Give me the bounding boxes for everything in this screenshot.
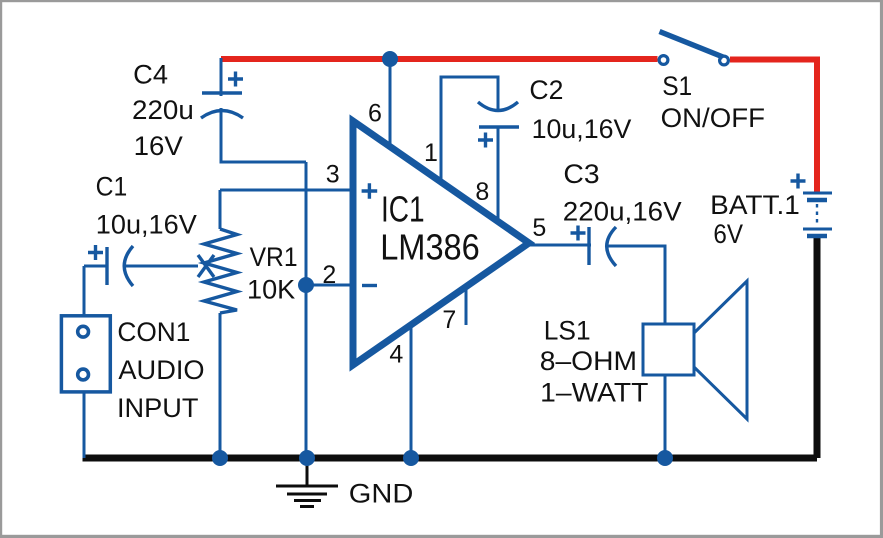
svg-text:4: 4 [389, 341, 403, 369]
wire: pin 7 stub [465, 288, 468, 325]
svg-text:1–WATT: 1–WATT [540, 378, 648, 408]
switch S1 [659, 32, 728, 65]
wire: C4 negative to ground vertical [305, 162, 308, 458]
junction node pin 2 to ground line [298, 277, 314, 293]
svg-text:1: 1 [424, 139, 438, 167]
svg-text:BATT.1: BATT.1 [710, 190, 800, 220]
svg-text:C2: C2 [529, 75, 563, 105]
wire: VR1 top to pin 3 [220, 189, 353, 192]
svg-text:IC1: IC1 [381, 189, 425, 230]
svg-text:8: 8 [475, 178, 489, 206]
wire: pin 1 to C2 top [441, 77, 498, 183]
wire: C4 top lead from red rail [220, 58, 223, 96]
op-amp inverting minus marker [362, 284, 377, 287]
wire: VR1 top lead [219, 190, 222, 229]
svg-text:AUDIO: AUDIO [118, 355, 204, 385]
page border [0, 0, 883, 2]
svg-text:3: 3 [326, 160, 340, 188]
wire: V+ red rail from switch S1 to battery positive [730, 60, 817, 194]
svg-text:10u,16V: 10u,16V [96, 210, 197, 240]
wire: pin 4 to ground [410, 325, 413, 458]
svg-text:ON/OFF: ON/OFF [661, 103, 765, 133]
svg-text:GND: GND [349, 479, 414, 509]
battery BATT.1 [791, 174, 833, 237]
wire: ground rail bottom [83, 455, 818, 462]
svg-text:LM386: LM386 [380, 227, 480, 268]
svg-text:6V: 6V [713, 219, 743, 249]
capacitor C2 [478, 102, 519, 148]
wire: pin 2 to ground vertical [306, 284, 353, 287]
wire: pin 6 from red rail [389, 59, 392, 147]
svg-text:6: 6 [368, 100, 382, 128]
loudspeaker LS1 [643, 281, 747, 419]
wire: C2 bottom plate lead to pin 8 [497, 127, 500, 222]
svg-text:2: 2 [322, 261, 336, 289]
wire: C1 left lead [84, 265, 109, 268]
svg-text:10u,16V: 10u,16V [532, 114, 632, 144]
wire: pin 5 to C3 [529, 244, 591, 247]
capacitor C1 [88, 245, 133, 286]
svg-text:16V: 16V [134, 131, 183, 161]
capacitor C4 [201, 72, 243, 119]
junction node on red rail at pin 6 [382, 51, 398, 67]
svg-text:10K: 10K [247, 275, 295, 305]
svg-text:CON1: CON1 [117, 317, 190, 347]
svg-text:5: 5 [532, 214, 546, 242]
junction node pin 4 on ground rail [403, 450, 419, 466]
wire: V+ red rail from C4 to switch S1 [221, 56, 658, 62]
wire: speaker to ground [664, 375, 667, 458]
op-amp noninverting plus marker [362, 183, 378, 199]
wire: C3 to speaker [608, 246, 666, 324]
potentiometer VR1 [198, 229, 237, 313]
wire: battery negative lead [814, 236, 821, 458]
ground symbol [276, 461, 338, 507]
svg-text:INPUT: INPUT [117, 393, 198, 423]
junction node VR1 bottom on ground rail [212, 450, 228, 466]
wire: C4 bottom lead jog to ground line [221, 108, 306, 162]
svg-text:8–OHM: 8–OHM [540, 346, 637, 376]
svg-text:7: 7 [442, 306, 456, 334]
capacitor C3 [571, 226, 617, 267]
svg-text:S1: S1 [662, 71, 692, 101]
wire: C1 to CON1 [83, 266, 86, 316]
svg-text:220u,16V: 220u,16V [563, 197, 682, 227]
wire: C1 to VR1 wiper [124, 265, 198, 268]
svg-text:C4: C4 [133, 60, 168, 90]
op-amp IC1 LM386 triangle [353, 121, 529, 365]
junction node speaker on ground rail [657, 450, 673, 466]
svg-text:C3: C3 [563, 159, 599, 189]
junction node C4 ground line on rail [299, 450, 315, 466]
wire: VR1 bottom lead to ground [219, 313, 222, 458]
svg-text:LS1: LS1 [544, 315, 591, 345]
svg-text:220u: 220u [132, 95, 194, 125]
svg-text:C1: C1 [96, 172, 128, 202]
connector CON1 [61, 316, 110, 392]
svg-text:VR1: VR1 [250, 242, 298, 272]
wire: CON1 bottom to ground [83, 392, 86, 458]
